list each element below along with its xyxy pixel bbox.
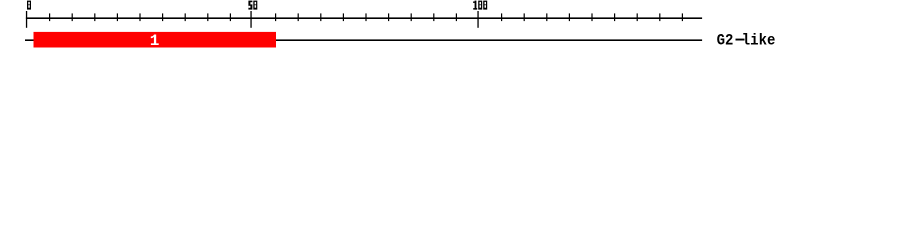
major tick 100: [477, 11, 478, 28]
scale label 50 : digit 5: [248, 1, 252, 10]
background: [0, 0, 900, 58]
motif block 1 (red box): [34, 32, 277, 48]
major tick 0: [26, 11, 27, 28]
scale label 0: [27, 1, 31, 10]
scale label 100 : digit 1: [473, 1, 477, 10]
sequence backbone line: [25, 39, 702, 41]
svg-text:1: 1: [150, 32, 160, 50]
scale label 100 : digit 0: [478, 1, 482, 10]
minor ticks (every 5 residues): [49, 13, 683, 21]
hyphen extension in G2-like: [736, 39, 745, 41]
svg-text:G2 like: G2 like: [717, 32, 776, 50]
ruler axis line: [26, 17, 702, 19]
major tick 50: [250, 11, 251, 28]
scale label 50 : digit 0: [253, 1, 257, 10]
scale label 100 : digit 0: [483, 1, 487, 10]
